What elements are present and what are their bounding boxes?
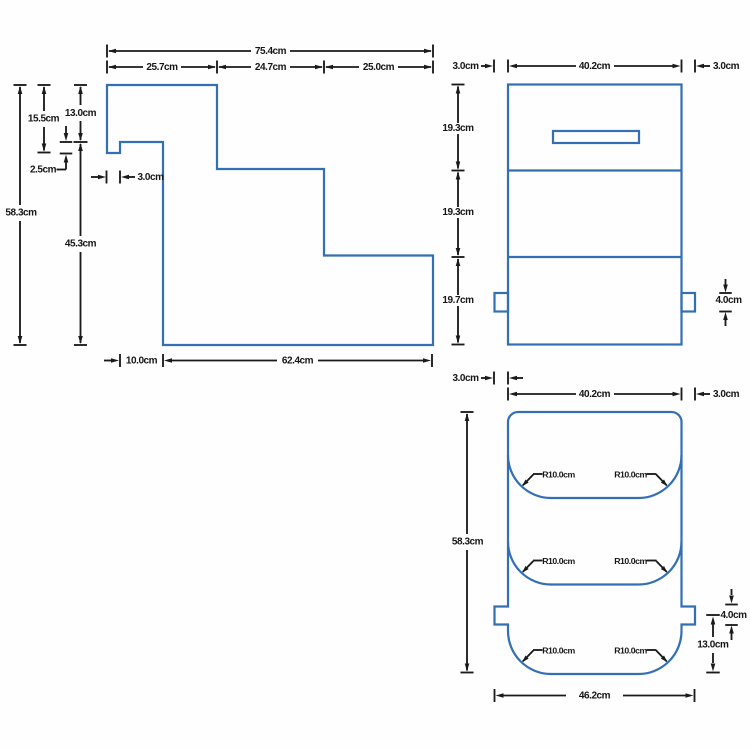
svg-text:R10.0cm: R10.0cm [542,646,575,656]
front view body rectangle (top right view) [508,85,682,345]
svg-text:19.7cm: 19.7cm [442,295,474,306]
dimension 3.0cm right (top of curved view) [695,388,740,401]
dimension 58.3cm (overall height, left view) [5,85,37,345]
svg-text:R10.0cm: R10.0cm [614,646,647,656]
dimension 40.2cm (top of curved view) [508,388,682,401]
svg-text:10.0cm: 10.0cm [126,356,158,367]
svg-text:58.3cm: 58.3cm [452,537,484,548]
svg-text:40.2cm: 40.2cm [579,61,611,72]
radius label R10.0cm pocket 1 right [614,470,667,487]
dimension 4.0cm (tab height, curved view) [720,589,747,640]
dimension 3.0cm (wall thickness, left view) [91,171,164,184]
pocket 2 bottom curve [508,542,682,585]
dimension 15.5cm (left view) [28,85,60,153]
dimension 13.0cm (curved view lower right) [697,615,729,673]
svg-text:15.5cm: 15.5cm [28,114,60,125]
dimension 62.4cm (bottom, left view) [164,354,432,367]
svg-text:24.7cm: 24.7cm [255,62,287,73]
radius label R10.0cm pocket 3 left [522,646,575,663]
dimension 2.5cm with leader (left view) [30,126,72,176]
svg-text:4.0cm: 4.0cm [720,610,747,621]
dimension 13.0cm (left view) [65,85,97,142]
front view handle slot [553,131,639,143]
svg-text:45.3cm: 45.3cm [65,239,97,250]
dimension 4.0cm (tab height, front view) [715,279,742,326]
radius label R10.0cm pocket 2 right [614,556,667,573]
pocket 1 bottom curve [508,455,682,498]
dimension 19.3cm (middle shelf, front view) [442,172,474,258]
svg-text:3.0cm: 3.0cm [137,172,164,183]
dimension 3.0cm left (below front view) [452,372,523,385]
dimension 25.0cm (bottom step width) [325,61,433,74]
svg-text:3.0cm: 3.0cm [452,61,479,72]
svg-text:13.0cm: 13.0cm [697,640,729,651]
svg-text:R10.0cm: R10.0cm [614,556,647,566]
radius label R10.0cm pocket 1 left [522,470,575,487]
radius label R10.0cm pocket 3 right [614,646,667,663]
svg-text:58.3cm: 58.3cm [5,208,37,219]
dimension 3.0cm right (top of front view) [695,60,740,73]
side profile outline (left view) [107,85,433,345]
svg-text:2.5cm: 2.5cm [30,165,57,176]
svg-text:46.2cm: 46.2cm [579,691,611,702]
svg-text:62.4cm: 62.4cm [282,356,314,367]
front view right tab [682,293,696,312]
svg-text:3.0cm: 3.0cm [452,373,479,384]
svg-text:13.0cm: 13.0cm [65,108,97,119]
dimension 25.7cm (top step width) [107,61,217,74]
svg-text:3.0cm: 3.0cm [713,389,740,400]
front view shelf divider line 1 [508,169,682,171]
dimension 58.3cm (curved view height) [452,412,484,673]
svg-text:19.3cm: 19.3cm [442,123,474,134]
svg-text:19.3cm: 19.3cm [442,207,474,218]
svg-text:4.0cm: 4.0cm [715,295,742,306]
svg-text:25.7cm: 25.7cm [146,62,178,73]
dimension 24.7cm (middle step width) [218,61,324,74]
dimension 46.2cm (bottom of curved view) [495,689,695,702]
svg-text:75.4cm: 75.4cm [255,46,287,57]
front view shelf divider line 2 [508,256,682,258]
dimension 40.2cm (top of front view) [508,60,682,73]
radius label R10.0cm pocket 2 left [522,556,575,573]
dimension 19.3cm (upper shelf, front view) [442,85,474,171]
svg-text:R10.0cm: R10.0cm [542,470,575,480]
dimension 3.0cm left (top of front view) [452,60,494,73]
svg-text:R10.0cm: R10.0cm [614,470,647,480]
svg-text:3.0cm: 3.0cm [713,61,740,72]
front view left tab [495,293,509,312]
dimension 75.4cm (overall width, left view) [107,45,433,58]
dimension 19.7cm (lower shelf, front view) [442,258,474,345]
curved pocket view outline [495,412,696,674]
svg-text:40.2cm: 40.2cm [579,389,611,400]
svg-text:R10.0cm: R10.0cm [542,556,575,566]
dimension 45.3cm (left view) [65,143,97,345]
dimension 10.0cm (bottom, left view) [104,354,163,367]
svg-text:25.0cm: 25.0cm [363,62,395,73]
